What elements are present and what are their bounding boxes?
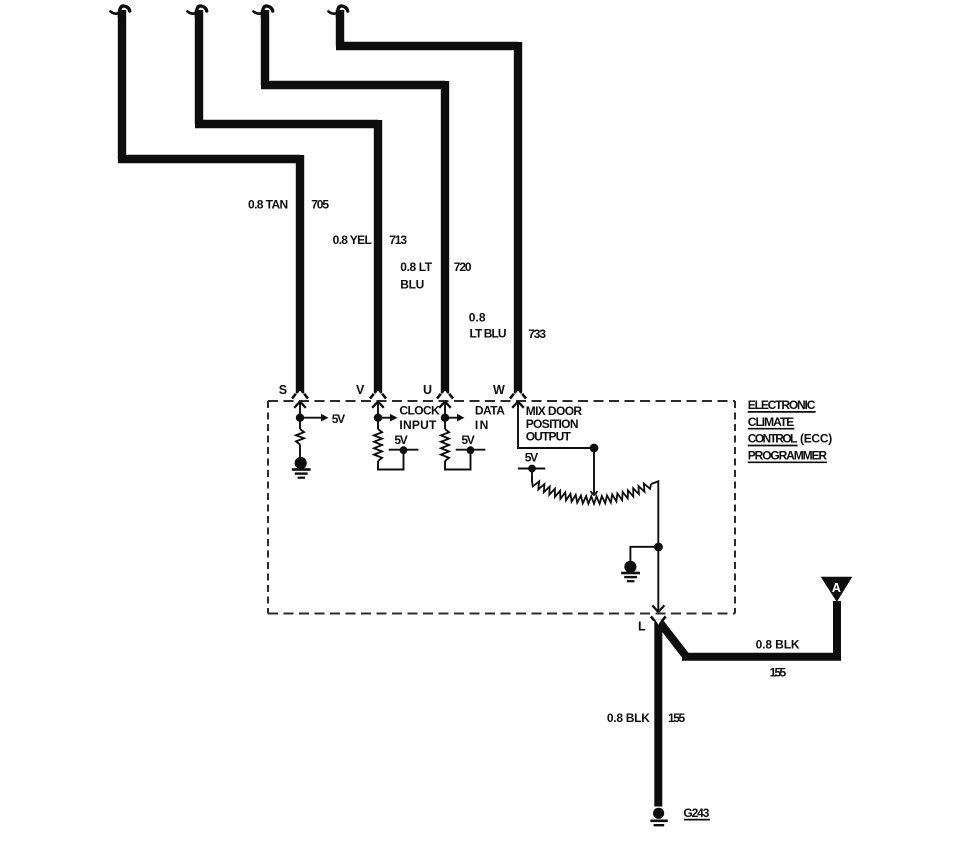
wire node to ground bbox=[630, 547, 658, 561]
svg-text:5V: 5V bbox=[525, 450, 538, 464]
wire 720 LT BLU (to pin U) bbox=[261, 10, 445, 394]
node dot S bbox=[296, 414, 304, 422]
svg-text:IN: IN bbox=[475, 418, 488, 432]
wire 713 YEL (to pin V) bbox=[195, 10, 378, 394]
arrow into pin V bbox=[372, 402, 384, 408]
svg-text:720: 720 bbox=[454, 260, 472, 274]
wire resistor V to 5V terminal bbox=[378, 452, 404, 470]
node dot V bbox=[374, 414, 382, 422]
svg-text:CONTROL: CONTROL bbox=[748, 432, 798, 446]
node dot U bbox=[441, 414, 449, 422]
svg-text:S: S bbox=[279, 383, 287, 397]
svg-text:5V: 5V bbox=[394, 433, 407, 447]
wire 720 continuation hook bbox=[262, 6, 272, 17]
svg-text:733: 733 bbox=[528, 327, 546, 341]
wire 713 continuation hook bbox=[196, 6, 206, 17]
svg-text:U: U bbox=[423, 383, 432, 397]
ground symbol (output branch) bbox=[621, 561, 640, 583]
svg-text:LT BLU: LT BLU bbox=[470, 327, 507, 341]
svg-text:CLOCK: CLOCK bbox=[399, 404, 440, 418]
wiper arrow bbox=[593, 448, 595, 495]
svg-text:0.8 LT: 0.8 LT bbox=[400, 260, 432, 274]
resistor (V branch) bbox=[374, 429, 382, 461]
svg-text:0.8: 0.8 bbox=[469, 311, 486, 325]
arrow into pin S bbox=[294, 402, 306, 408]
wire resistor U to 5V terminal bbox=[445, 452, 471, 470]
clock input arrow at V bbox=[378, 417, 390, 419]
5V terminal (potentiometer) bbox=[518, 468, 545, 470]
svg-text:0.8 BLK: 0.8 BLK bbox=[607, 711, 650, 725]
svg-text:G243: G243 bbox=[683, 806, 709, 820]
svg-text:CLIMATE: CLIMATE bbox=[748, 415, 794, 429]
svg-text:V: V bbox=[356, 383, 365, 397]
connector pin S bbox=[292, 394, 308, 399]
wire 155 BLK to G243 ground bbox=[654, 620, 662, 807]
wire 705 continuation hook bbox=[119, 6, 129, 17]
wire 155 BLK to connector A bbox=[660, 601, 842, 661]
svg-text:155: 155 bbox=[770, 665, 787, 679]
wire track to output node bbox=[651, 481, 658, 612]
svg-text:BLU: BLU bbox=[400, 277, 424, 291]
data in arrow at U bbox=[445, 417, 457, 419]
svg-text:ELECTRONIC: ELECTRONIC bbox=[748, 398, 816, 412]
resistor (U branch) bbox=[441, 429, 449, 461]
connector pin V bbox=[370, 394, 386, 399]
connector pin W bbox=[510, 394, 526, 399]
arrow into pin W (mix door output) bbox=[512, 402, 524, 408]
potentiometer resistive track bbox=[532, 481, 651, 504]
svg-text:MIX DOOR: MIX DOOR bbox=[526, 404, 583, 418]
svg-text:5V: 5V bbox=[461, 433, 474, 447]
5V arrow at S bbox=[300, 417, 321, 419]
svg-text:(ECC): (ECC) bbox=[800, 432, 832, 446]
wire 705 TAN (to pin S) bbox=[118, 10, 300, 394]
wire 5V terminal to track bbox=[531, 469, 533, 483]
wire pin W to wiper node bbox=[518, 402, 594, 449]
connector pin L bbox=[651, 616, 666, 620]
svg-text:W: W bbox=[493, 383, 505, 397]
svg-text:0.8 YEL: 0.8 YEL bbox=[333, 233, 372, 247]
svg-text:155: 155 bbox=[668, 711, 686, 725]
resistor (S branch) bbox=[296, 429, 304, 445]
svg-text:INPUT: INPUT bbox=[399, 418, 437, 432]
svg-text:705: 705 bbox=[311, 198, 329, 212]
arrow to pin L bbox=[652, 605, 664, 612]
node dot wiper bbox=[590, 444, 599, 453]
wire 733 continuation hook bbox=[337, 6, 347, 17]
node dot output bbox=[654, 543, 663, 552]
svg-text:A: A bbox=[832, 581, 841, 595]
wire pin V to node bbox=[377, 402, 379, 430]
svg-text:PROGRAMMER: PROGRAMMER bbox=[748, 449, 828, 463]
wire pin U to node bbox=[444, 402, 446, 430]
5V terminal at V bbox=[389, 449, 419, 451]
arrow into pin U bbox=[439, 402, 451, 408]
svg-text:OUTPUT: OUTPUT bbox=[526, 430, 572, 444]
svg-text:713: 713 bbox=[389, 233, 407, 247]
connector A triangle bbox=[821, 577, 853, 602]
svg-text:5V: 5V bbox=[332, 412, 345, 426]
svg-text:L: L bbox=[638, 619, 646, 633]
ground symbol (S branch) bbox=[292, 457, 311, 479]
svg-text:DATA: DATA bbox=[475, 404, 505, 418]
connector pin U bbox=[437, 394, 453, 399]
svg-text:0.8 BLK: 0.8 BLK bbox=[756, 638, 800, 652]
wire 733 LT BLU (to pin W) bbox=[336, 10, 518, 394]
ECC programmer box (dashed) bbox=[268, 400, 735, 402]
5V terminal at U bbox=[456, 449, 486, 451]
wire resistor to ground bbox=[299, 445, 301, 458]
ground G243 bbox=[650, 808, 667, 827]
svg-text:0.8 TAN: 0.8 TAN bbox=[248, 198, 288, 212]
wire pin S to node bbox=[299, 402, 301, 430]
